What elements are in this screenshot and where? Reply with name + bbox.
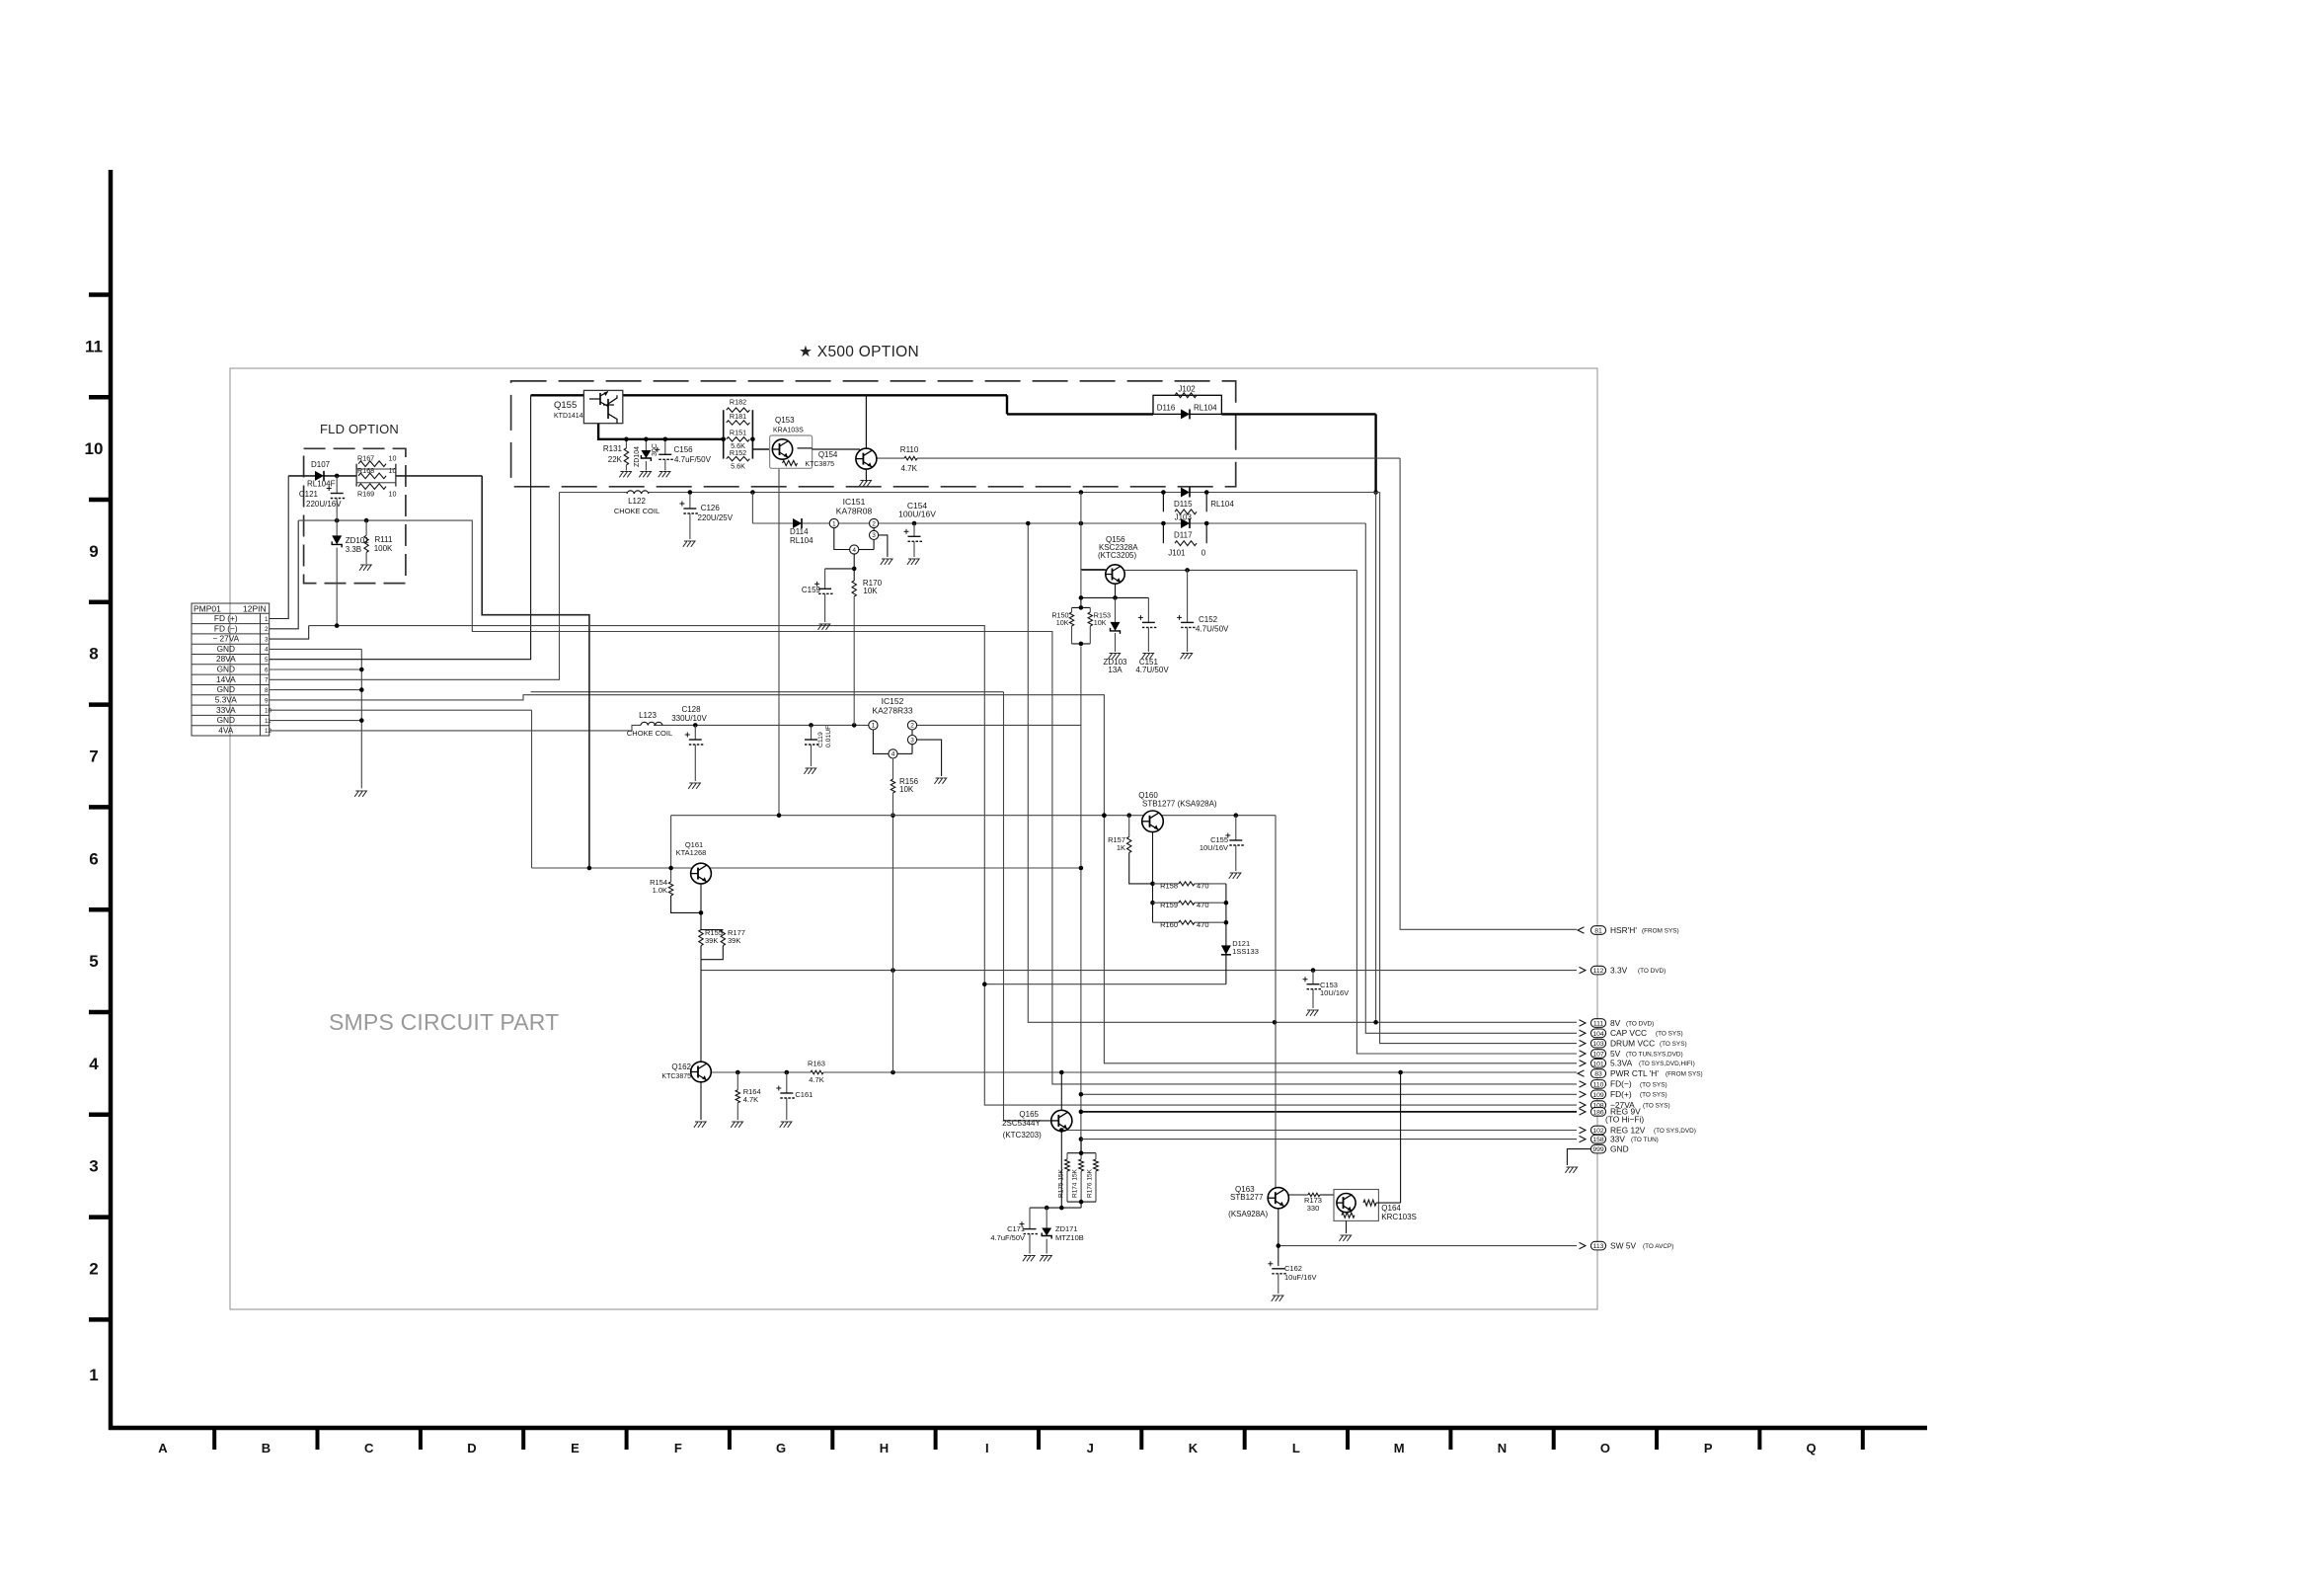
svg-text:R158: R158 [1160,882,1178,891]
X500 option dashed box [511,381,1236,487]
diode D115 group [1163,488,1234,522]
svg-text:R110: R110 [900,445,919,454]
label J102 [1178,385,1196,394]
svg-text:Q164: Q164 [1381,1204,1401,1213]
svg-text:102: 102 [1592,1128,1604,1135]
wire 3.3V line [701,968,1577,973]
svg-text:CHOKE COIL: CHOKE COIL [614,507,659,515]
svg-text:C: C [364,1441,374,1455]
svg-text:81: 81 [1594,928,1602,935]
svg-text:J102: J102 [1178,385,1196,394]
label Q156 [1098,535,1138,560]
svg-text:★ X500 OPTION: ★ X500 OPTION [799,344,919,360]
svg-text:6: 6 [89,849,98,868]
connector 107 5V [1580,1049,1683,1059]
transistor Q154 [856,395,877,482]
resistor R155 [699,930,703,960]
resistor R131 [624,448,628,471]
title SMPS CIRCUIT PART [329,1009,559,1035]
svg-text:G: G [776,1441,786,1455]
label R181 [730,412,746,421]
label C162 [1284,1264,1317,1282]
resistor R169 [358,484,386,490]
wire column x905 [892,971,894,1072]
connector 111 8V [1580,1018,1655,1028]
svg-text:GND: GND [217,644,235,654]
svg-text:(FROM SYS): (FROM SYS) [1666,1071,1703,1078]
wire Q156 base [1081,569,1106,571]
svg-text:14VA: 14VA [216,674,236,684]
svg-text:4.7uF/50V: 4.7uF/50V [674,455,712,464]
connector 186 REG 9V [1580,1107,1645,1125]
capacitor C128 [685,725,704,781]
svg-text:4: 4 [89,1055,99,1073]
connector 104 CAP VCC [1580,1028,1683,1038]
svg-text:(TO DVD): (TO DVD) [1638,968,1666,975]
resistor J102 [1175,393,1197,398]
svg-text:7: 7 [89,747,98,766]
ground C154 [907,559,919,565]
label C151 [1135,658,1169,674]
svg-text:(KSA928A): (KSA928A) [1228,1210,1268,1219]
wire DRUM VCC feed [1380,493,1577,1044]
label C159 [802,586,821,594]
label Q160 [1138,791,1217,809]
svg-text:1SS133: 1SS133 [1232,947,1259,956]
svg-text:470: 470 [1197,901,1209,909]
svg-text:FD (−): FD (−) [214,623,238,633]
label R176 [1087,1168,1094,1198]
label R182 [730,398,746,407]
resistor R181 [727,421,750,425]
label L122 [614,497,659,515]
ground C156 [658,472,670,478]
wire R182 buses [721,410,754,458]
label IC151 [836,497,873,516]
svg-text:186: 186 [1592,1109,1604,1116]
svg-text:R159: R159 [1160,901,1178,909]
label Q153 [773,416,804,434]
svg-text:2: 2 [872,520,876,527]
svg-text:R111: R111 [375,535,393,544]
svg-text:IC151: IC151 [843,497,866,507]
label R169 [357,490,397,499]
ground C161 [780,1122,792,1128]
svg-text:(TO SYS,DVD): (TO SYS,DVD) [1654,1128,1696,1135]
svg-text:4: 4 [265,647,269,654]
label C154 [898,501,936,519]
svg-text:Q154: Q154 [818,450,838,459]
svg-text:Q: Q [1807,1441,1817,1455]
diode D107 [315,471,324,481]
svg-text:(KTC3205): (KTC3205) [1098,551,1136,560]
resistor R177 [701,930,726,960]
border ruler left [85,170,111,1430]
capacitor C162 [1268,1261,1286,1294]
svg-text:KTC3875: KTC3875 [661,1073,691,1080]
svg-text:R182: R182 [730,398,746,407]
svg-text:(TO TUN): (TO TUN) [1631,1137,1659,1143]
wire FD(+) row [1081,1093,1577,1095]
capacitor C153 [1303,971,1322,1008]
svg-text:Q153: Q153 [775,416,795,425]
svg-text:FD(−): FD(−) [1610,1079,1632,1089]
label R151 [730,429,746,450]
svg-text:C126: C126 [701,504,721,512]
svg-text:101: 101 [1592,1061,1604,1067]
svg-text:STB1277: STB1277 [1230,1193,1264,1202]
svg-text:8: 8 [89,645,98,664]
capacitor C152 [1177,570,1196,652]
label ZD103 [1103,658,1127,674]
svg-text:B: B [262,1441,271,1455]
svg-text:4.7U/50V: 4.7U/50V [1135,666,1169,674]
wire PMP01 pin3 -27VA up [270,626,309,640]
connector PMP01 12PIN [192,603,272,736]
svg-text:5: 5 [89,952,98,971]
resistor R182 [727,408,750,412]
label C171 [990,1224,1025,1242]
svg-text:13A: 13A [1108,666,1123,674]
svg-text:C159: C159 [802,586,821,594]
label R173 [1304,1196,1322,1213]
svg-text:O: O [1600,1441,1610,1455]
svg-text:11: 11 [265,718,271,725]
label R158 [1160,882,1208,891]
svg-text:4.7K: 4.7K [743,1095,758,1104]
wire R158 col [1224,884,1229,946]
svg-text:2: 2 [910,723,914,730]
resistor R163 [811,1070,823,1074]
wire PMP01 pin12 4VA [270,725,641,731]
diode D116 [1157,404,1217,420]
svg-text:RL104: RL104 [1210,500,1234,509]
svg-text:R151: R151 [730,429,746,437]
label C153 [1320,981,1349,997]
svg-text:9: 9 [265,697,269,704]
resistor R168 [358,473,386,479]
ground C171 [1023,1256,1035,1262]
wire PMP01 pin10 33VA [270,709,532,711]
wire Q163 emitter [1277,1209,1281,1266]
label C155 [1200,835,1228,852]
wire -27VA line [309,626,1577,1106]
ground C126 [683,541,695,547]
svg-text:33V: 33V [1610,1134,1625,1143]
connector 110 FD(-) [1580,1079,1667,1089]
ground C153 [1306,1010,1318,1016]
svg-text:158: 158 [1592,1137,1604,1143]
label R131 [603,444,623,464]
ground Q162 [694,1122,706,1128]
svg-text:4.7uF/50V: 4.7uF/50V [990,1233,1025,1242]
resistor R111 [364,520,368,564]
svg-text:4: 4 [891,751,895,758]
svg-text:(TO SYS): (TO SYS) [1656,1031,1683,1038]
svg-text:0.01UF: 0.01UF [825,726,832,747]
wire REG9V line [1081,1111,1577,1113]
svg-text:SW 5V: SW 5V [1610,1240,1636,1250]
svg-text:DRUM VCC: DRUM VCC [1610,1038,1655,1048]
label RL104F [307,480,336,489]
connector 101 5.3VA [1580,1059,1695,1068]
svg-text:4.7U/50V: 4.7U/50V [1196,625,1229,634]
svg-text:(TO SYS,DVD,HIFI): (TO SYS,DVD,HIFI) [1639,1061,1695,1067]
FLD option dashed box [304,448,406,583]
svg-text:KRA103S: KRA103S [773,428,804,434]
ground ZD171 [1040,1256,1051,1262]
label C161 [795,1090,813,1099]
svg-text:0: 0 [1201,549,1206,558]
svg-text:R167: R167 [357,454,374,463]
svg-text:KTA1268: KTA1268 [676,848,707,857]
zener ZD104 [641,450,651,471]
svg-text:R152: R152 [730,448,746,457]
svg-text:9: 9 [89,542,98,561]
svg-text:3: 3 [872,532,876,539]
wire 33VA drop [532,710,1081,868]
svg-text:110: 110 [1593,1081,1604,1088]
svg-text:2: 2 [89,1260,98,1279]
svg-text:470: 470 [1197,882,1209,891]
svg-text:I: I [985,1441,989,1455]
svg-text:F: F [674,1441,682,1455]
svg-text:PWR CTL 'H': PWR CTL 'H' [1610,1068,1659,1078]
label R175 [1058,1168,1065,1198]
svg-text:1: 1 [832,520,836,527]
resistor R170 [852,581,856,725]
svg-text:4.7K: 4.7K [809,1075,823,1084]
svg-text:D107: D107 [311,460,331,469]
label C119 [817,726,832,747]
svg-text:L: L [1292,1441,1300,1455]
svg-text:10uF/16V: 10uF/16V [1284,1273,1317,1282]
svg-text:RL104F: RL104F [307,480,336,489]
wire J102 out down [1373,414,1378,494]
resistor R157 [1127,816,1153,884]
wire Q155 emitter rail [598,424,724,439]
label R167 [357,454,397,463]
svg-text:4.7K: 4.7K [901,464,918,473]
svg-text:7: 7 [265,677,269,684]
wire R stack to Q153 [752,448,769,450]
resistor R164 [736,1072,739,1121]
label R170 [863,579,883,595]
svg-text:FD (+): FD (+) [214,613,238,623]
svg-text:5: 5 [265,657,269,664]
wire REG12V line [1061,1130,1577,1132]
svg-text:Q162: Q162 [671,1062,691,1071]
label Q164 [1381,1204,1417,1221]
wire PMP01 pin2 FD(-) up [270,520,299,629]
svg-text:STB1277 (KSA928A): STB1277 (KSA928A) [1142,800,1217,809]
svg-text:1.0K: 1.0K [653,886,667,895]
label R174 [1072,1168,1079,1198]
svg-text:HSR'H': HSR'H' [1610,925,1637,935]
svg-text:10: 10 [389,454,397,463]
wire aux 5.3VA twin [531,691,1004,693]
wire Q164 gnd [1346,1220,1348,1233]
ground PMP01 GND bus [354,791,366,797]
svg-text:100K: 100K [374,544,393,553]
svg-text:KA78R08: KA78R08 [836,507,873,516]
connector 108 -27VA [1580,1100,1670,1110]
svg-text:H: H [880,1441,889,1455]
svg-text:Q155: Q155 [554,400,577,411]
wire SW5V line [1278,1245,1577,1247]
label Q155 [554,400,583,420]
svg-text:12PIN: 12PIN [243,604,267,614]
label R154 [650,878,667,895]
svg-text:KRC103S: KRC103S [1381,1213,1417,1221]
wire FD(+) loop [482,476,591,870]
wire HSR feed [1400,458,1577,929]
label L123 [627,711,672,738]
label ZD104 [634,446,641,467]
svg-text:10: 10 [85,439,104,458]
zener ZD101 [332,520,342,628]
box around R168 [356,469,396,483]
capacitor C156 [655,447,673,471]
svg-text:IC152: IC152 [882,696,904,706]
svg-text:5V: 5V [1610,1049,1621,1059]
label IC152 [872,696,912,716]
resistor R159 [1153,901,1226,904]
svg-text:83: 83 [1594,1071,1602,1078]
svg-text:5.6K: 5.6K [731,462,745,471]
label 30C [652,443,658,456]
label D114 [790,527,813,545]
ground IC151 pin3 [881,559,892,565]
label C128 [671,705,707,723]
wire Q161 emitter [699,884,704,930]
svg-text:GND: GND [217,715,235,725]
transistor Q161 [691,863,712,884]
schematic frame [230,368,1597,1309]
resistor R173 [1288,1193,1334,1197]
wire 33V column [1079,493,1084,1153]
svg-text:8: 8 [265,687,269,694]
wire Q156 rail [1082,568,1357,573]
resistor R167 [356,461,396,487]
ground C151 [1141,654,1153,660]
label R157 [1108,835,1125,852]
svg-text:(TO TUN,SYS,DVD): (TO TUN,SYS,DVD) [1626,1051,1683,1058]
svg-text:A: A [158,1441,168,1455]
wire 28VA rail [531,395,1376,414]
svg-text:GND: GND [217,684,235,694]
zener ZD171 [1042,1208,1051,1253]
svg-text:11: 11 [85,337,103,355]
wire CAP VCC feed [1365,523,1577,1033]
label R160 [1160,920,1208,929]
wire Q165 collector [1060,1072,1062,1111]
IC IC152 [869,721,942,776]
transistor Q163 [1268,1188,1288,1209]
wire Q165 base [1004,1120,1051,1122]
svg-text:(FROM SYS): (FROM SYS) [1642,927,1679,934]
IC IC151 [829,518,888,557]
svg-text:D117: D117 [1174,531,1193,540]
svg-text:(TO SYS): (TO SYS) [1660,1041,1687,1048]
svg-text:10K: 10K [1094,618,1107,627]
svg-text:5.3VA: 5.3VA [1610,1059,1633,1068]
label R163 [808,1060,825,1085]
resistor R152 [727,456,750,460]
border ruler bottom [109,1428,1927,1455]
svg-text:L122: L122 [628,497,646,506]
ground C159 [817,624,829,630]
transistor Q156 [1106,565,1124,598]
capacitor C119 [805,725,819,766]
wire rail y734 [654,723,1081,728]
svg-text:− 27VA: − 27VA [212,634,239,644]
svg-text:KTD1414: KTD1414 [554,413,583,420]
capacitor C161 [776,1072,795,1121]
label Q154 [805,450,838,468]
svg-text:R169: R169 [357,490,374,499]
label R156 [899,777,919,794]
svg-text:112: 112 [1593,968,1604,975]
svg-text:33VA: 33VA [216,705,236,715]
resistor R151 [727,437,750,441]
svg-text:10U/16V: 10U/16V [1320,988,1349,997]
capacitor C171 [1020,1208,1039,1253]
svg-text:470: 470 [1197,920,1209,929]
wire emitter drops [624,437,667,455]
label R150 [1051,611,1068,628]
label R164 [743,1087,761,1104]
diode D121 [1221,945,1231,983]
svg-text:22K: 22K [608,455,623,464]
label Q161 [676,840,707,857]
wire y1223 rail [1030,1206,1081,1211]
svg-text:C156: C156 [674,445,694,454]
capacitor C154 [904,523,923,557]
svg-text:D114: D114 [790,527,809,536]
jumper J102 box [1153,395,1221,414]
svg-text:1: 1 [872,723,876,730]
ground ZD103 [1108,654,1120,660]
svg-text:PMP01: PMP01 [194,604,221,614]
wire 8V dark stub [1373,493,1378,1025]
svg-text:(TO AVCP): (TO AVCP) [1643,1243,1673,1250]
ground C128 [688,783,700,789]
label R177 [728,928,745,945]
wire PMP01 pin1 FD(+) up [270,476,289,619]
svg-text:3.3V: 3.3V [1610,965,1628,975]
wire R155 down [700,960,702,1062]
label D121 [1232,939,1259,956]
svg-text:Q165: Q165 [1019,1110,1039,1119]
wire Q153 emitter down [777,468,782,818]
svg-text:R181: R181 [730,412,746,421]
connector 103 DRUM VCC [1580,1038,1687,1048]
capacitor C126 [679,494,698,539]
svg-text:330: 330 [1307,1204,1320,1213]
label R155 [705,928,723,945]
svg-text:KTC3875: KTC3875 [805,461,834,468]
svg-text:113: 113 [1593,1243,1604,1250]
svg-text:GND: GND [1610,1143,1629,1153]
wire 33V line [1081,1139,1577,1140]
svg-text:3: 3 [89,1157,98,1176]
svg-text:ZD104: ZD104 [634,446,641,467]
wire Q160 emitter col [1150,832,1155,923]
connector 83 PWR CTL [1578,1068,1703,1078]
svg-text:330U/10V: 330U/10V [671,714,707,723]
svg-text:J: J [1087,1441,1094,1455]
